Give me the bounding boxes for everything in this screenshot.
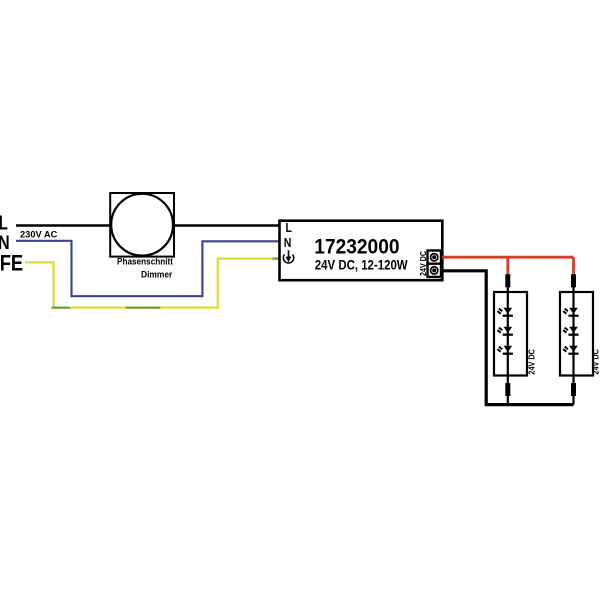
svg-text:L: L [0,211,8,234]
functional earth symbol [283,250,293,263]
wire: FE green stripe segment 2 [126,306,161,308]
connector strip1 bottom [505,383,510,396]
svg-text:L: L [286,220,293,235]
wire: N neutral (blue) from terminal N to PSU N [16,241,280,296]
LED D5 [563,327,579,336]
LED D6 [563,346,579,355]
wire: FE green stripe segment 3 [273,257,280,259]
wire: +24V (red) from PSU to LED strips [441,256,574,259]
LED strip 2 box [560,292,593,376]
dimmer S1 body (square) [110,193,174,257]
svg-text:24V DC: 24V DC [418,251,428,276]
svg-text:24V DC: 24V DC [591,349,600,375]
svg-text:FE: FE [0,250,23,275]
svg-text:Dimmer: Dimmer [141,269,173,280]
wire: FE earth (yellow) from terminal FE to PSU earth [25,259,280,308]
svg-text:24V DC: 24V DC [527,349,537,375]
svg-text:N: N [284,235,292,250]
LED D1 [497,308,513,317]
wire: strip 1 feed vertical [507,284,509,405]
dimmer S1 knob (circle) [111,194,173,256]
wire: +24V red drop to strip 2 [572,257,575,275]
wire: L phase 230V (black) from terminal L to dimmer to PSU [16,224,280,227]
connector strip2 bottom [571,383,576,396]
connector strip1 top [505,274,510,287]
terminal X1 screw [430,253,439,262]
terminal X1 (+) square [428,251,442,264]
wire: strip 2 feed vertical [572,284,574,405]
terminal X2 (-) square [428,264,442,277]
LED D3 [497,346,513,355]
terminal X2 screw [430,266,439,275]
svg-text:17232000: 17232000 [314,235,399,258]
LED strip 1 box [494,292,527,376]
wire: 0V return (black) from PSU to strips bottom [441,271,574,405]
LED D2 [497,327,513,336]
svg-text:Phasenschnitt: Phasenschnitt [117,257,174,268]
svg-text:230V AC: 230V AC [20,230,58,240]
svg-text:24V DC, 12-120W: 24V DC, 12-120W [315,257,408,273]
wire: +24V red drop to strip 1 [506,257,509,275]
LED D4 [563,308,579,317]
power supply U1 box [280,221,443,281]
connector strip2 top [571,274,576,287]
wire: FE green stripe segment 1 [52,306,71,308]
